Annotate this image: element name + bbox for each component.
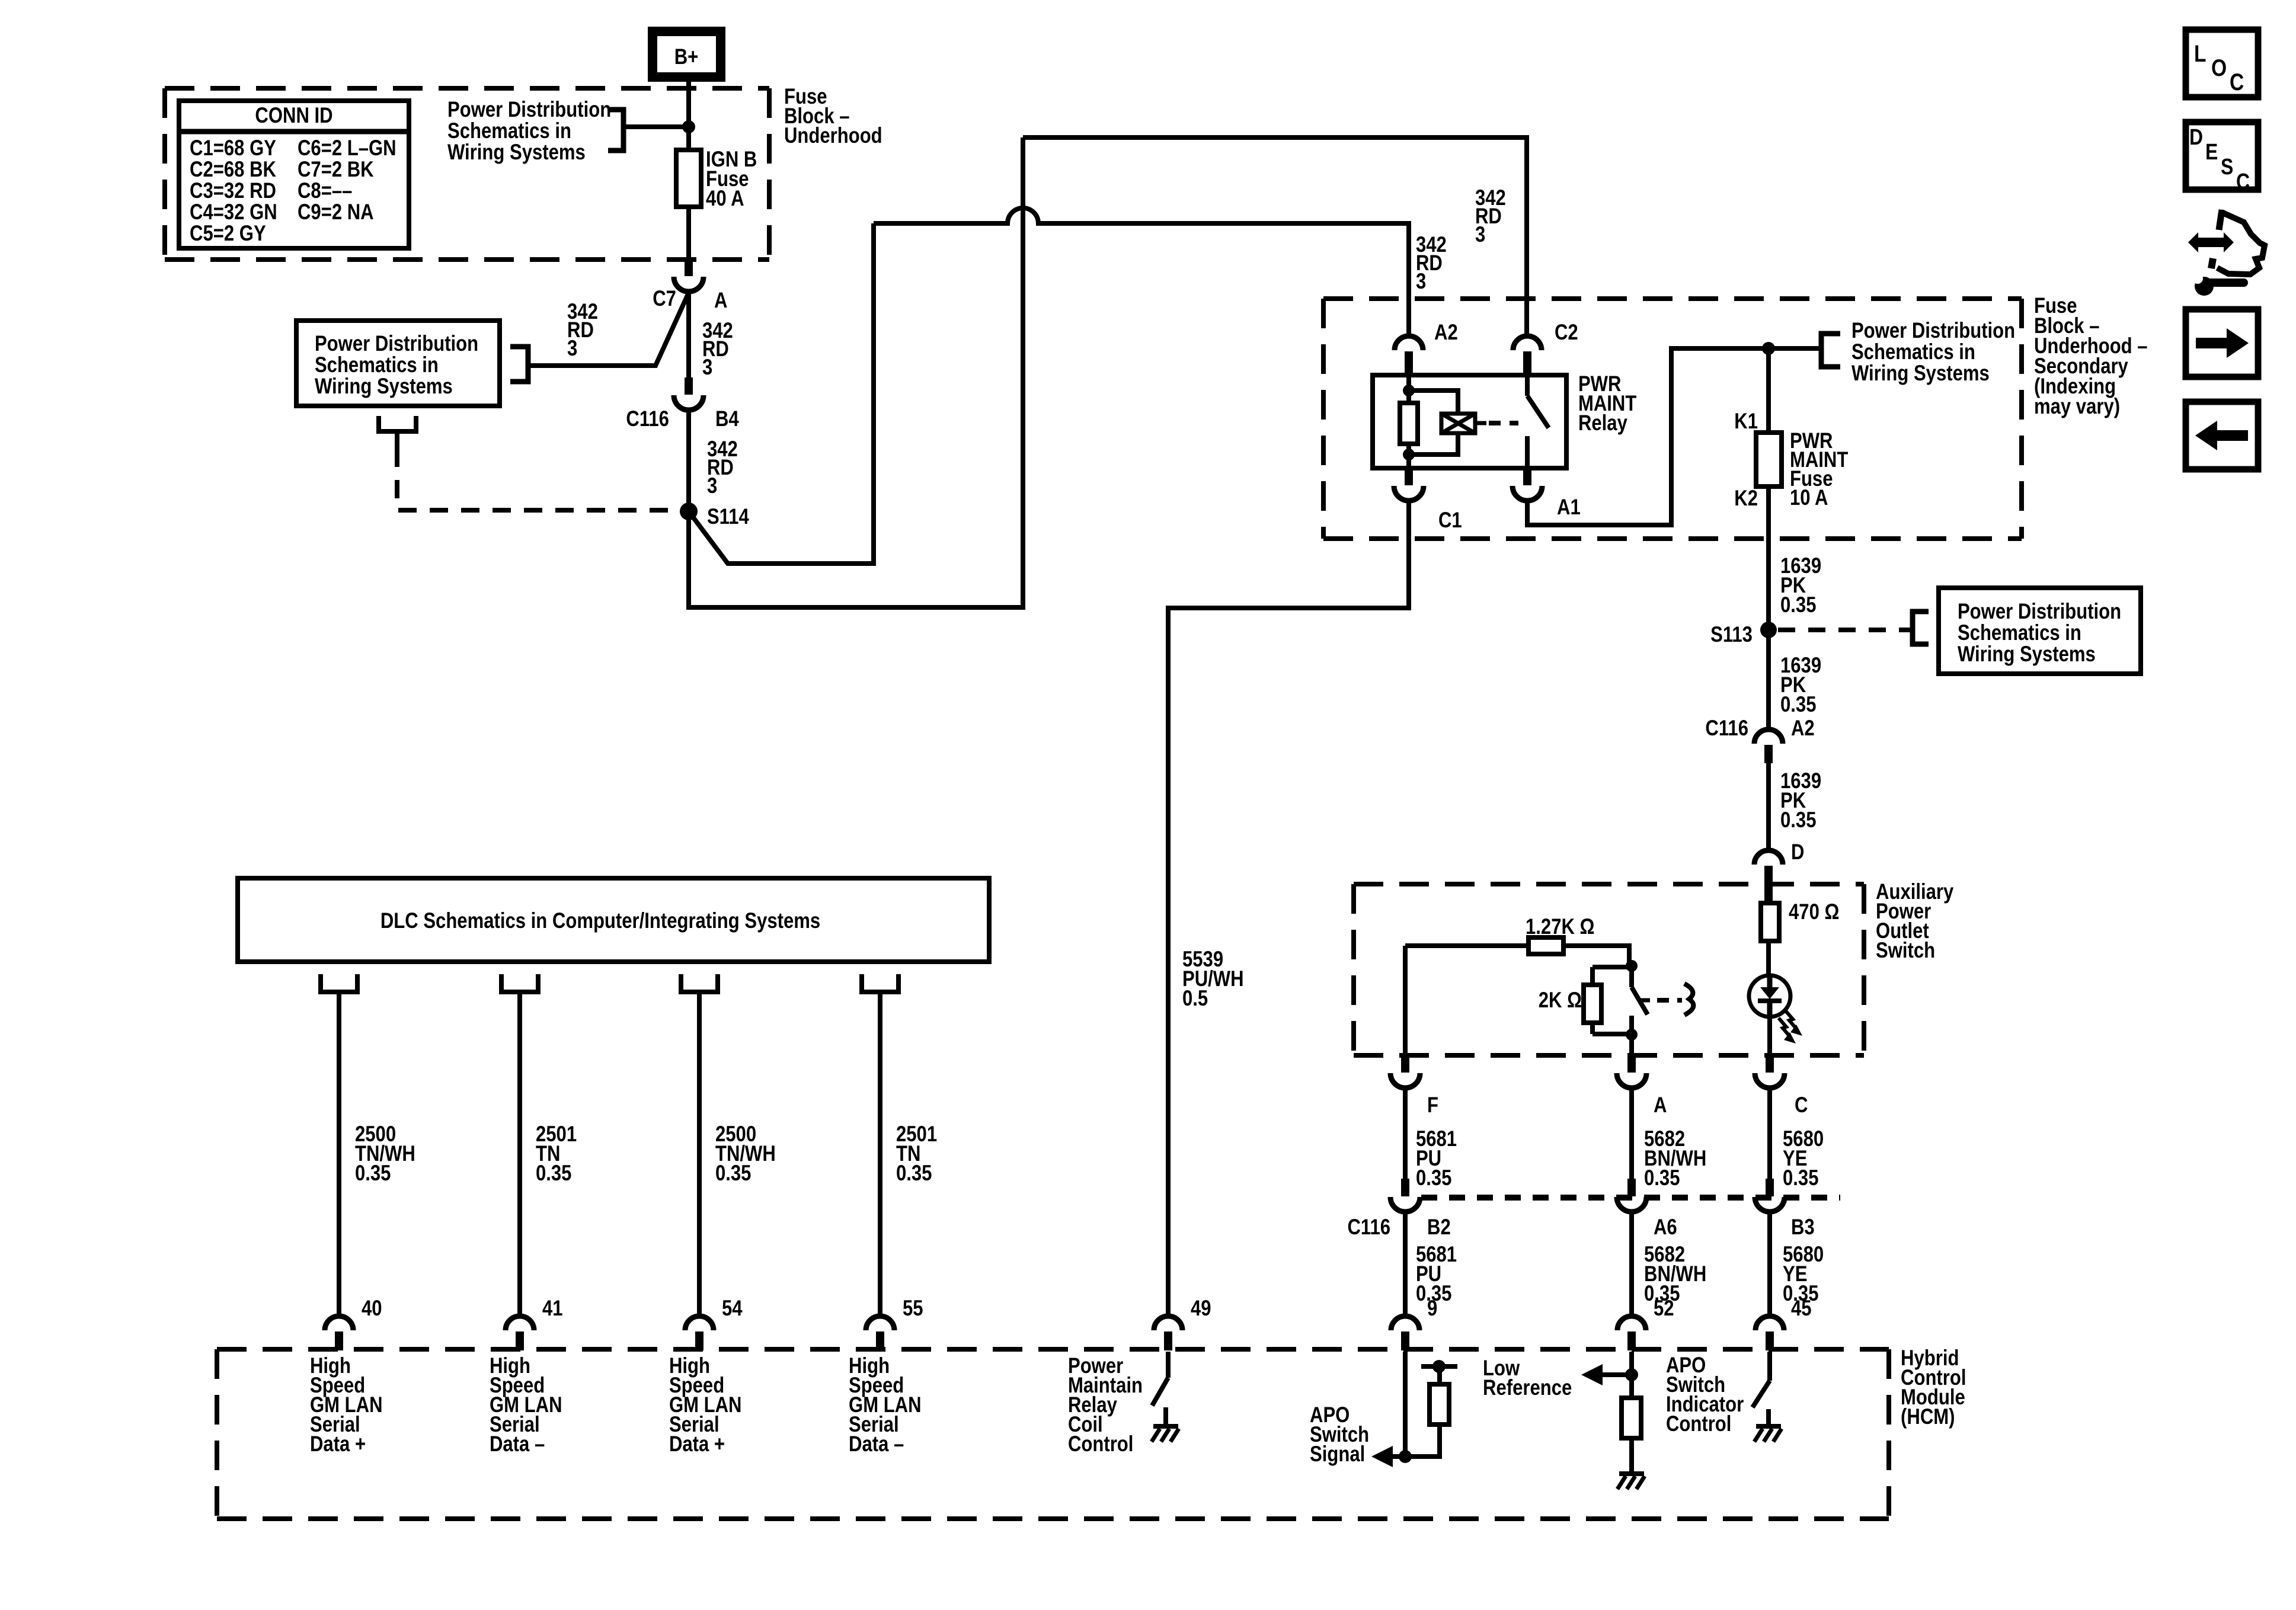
- connector pin 41 into HCM: [506, 1316, 534, 1330]
- pin 9 wire to junction: [1403, 1352, 1408, 1457]
- connector bracket below DLC box #4: [862, 974, 898, 992]
- svg-text:Schematics in: Schematics in: [315, 353, 439, 377]
- wire bracket to B+ feed: [623, 124, 689, 129]
- svg-text:A2: A2: [1791, 716, 1815, 741]
- svg-text:C3=32 RD: C3=32 RD: [190, 179, 276, 203]
- svg-text:C2: C2: [1555, 321, 1578, 345]
- svg-text:3: 3: [1475, 223, 1485, 247]
- connector pin 49 into HCM: [1154, 1316, 1182, 1330]
- switch upper contact dot: [1626, 960, 1638, 972]
- svg-text:Switch: Switch: [1876, 939, 1935, 963]
- icon vehicle outline with arrow and wrench: [2188, 232, 2234, 252]
- svg-text:Power Distribution: Power Distribution: [447, 98, 611, 122]
- svg-text:40 A: 40 A: [706, 187, 744, 211]
- wire A1 to K1 feed: [1527, 348, 1821, 525]
- dashed wire S113 to bracket: [1778, 628, 1913, 632]
- svg-text:0.35: 0.35: [1780, 593, 1816, 617]
- pin 9 pull-up resistor: [1405, 1425, 1440, 1457]
- wire DLC to HCM pin 54: [697, 992, 702, 1316]
- wire C1 to pin 49 riser: [1168, 501, 1409, 1316]
- connector C116 dotted line: [1421, 1195, 1840, 1201]
- svg-text:9: 9: [1427, 1297, 1437, 1321]
- connector A2 into relay: [1395, 336, 1423, 350]
- svg-text:Wiring Systems: Wiring Systems: [315, 375, 453, 399]
- svg-text:Underhood: Underhood: [784, 124, 882, 148]
- junction dot pin 9: [1399, 1450, 1412, 1463]
- component box DLC Schematics in Computer/Integrating Systems: [238, 878, 989, 962]
- connector C out of aux box: [1766, 1055, 1774, 1073]
- svg-text:CONN ID: CONN ID: [255, 104, 332, 128]
- svg-text:L: L: [2194, 40, 2207, 66]
- svg-text:45: 45: [1791, 1297, 1812, 1321]
- connector A1 out of relay: [1523, 468, 1531, 485]
- svg-text:Schematics in: Schematics in: [1851, 340, 1975, 364]
- svg-text:C116: C116: [1347, 1215, 1390, 1240]
- svg-text:C116: C116: [1705, 716, 1748, 741]
- wire A6 to pin 52: [1629, 1212, 1634, 1316]
- svg-text:Control: Control: [1666, 1412, 1731, 1436]
- wire 1.27K branch to pin F: [1403, 946, 1408, 1055]
- connector D into aux switch: [1754, 850, 1783, 865]
- wire top horizontal to C2: [1023, 137, 1527, 336]
- svg-text:B4: B4: [715, 407, 739, 431]
- APO switch signal arrow: [1371, 1446, 1393, 1467]
- svg-text:A: A: [1654, 1093, 1667, 1118]
- wire DLC to HCM pin 40: [337, 992, 341, 1316]
- svg-text:470 Ω: 470 Ω: [1789, 900, 1839, 924]
- fuse block - underhood secondary dashed box: [1323, 296, 2022, 301]
- power symbol B+ (battery feed): [653, 31, 721, 77]
- svg-text:Wiring Systems: Wiring Systems: [1851, 361, 1990, 386]
- wire A2 to D: [1766, 763, 1771, 850]
- low reference arrow: [1581, 1364, 1603, 1385]
- svg-text:B2: B2: [1427, 1215, 1451, 1240]
- hybrid control module dashed box: [217, 1347, 1889, 1352]
- switch blade (momentary): [1629, 966, 1634, 987]
- splice S114: [680, 502, 698, 520]
- resistor 470 ohm: [1766, 901, 1771, 903]
- svg-text:Power Distribution: Power Distribution: [315, 332, 478, 356]
- wire F to C116 B2: [1403, 1088, 1408, 1179]
- connector C116 pin B3: [1766, 1179, 1774, 1196]
- wire horizontal to A2 with hop: [874, 208, 1409, 336]
- junction dot K1 feed: [1762, 342, 1775, 355]
- svg-text:41: 41: [542, 1297, 563, 1321]
- pin 49 switch to ground: [1166, 1352, 1171, 1378]
- auxiliary power outlet switch dashed box: [1354, 882, 1864, 886]
- connector C116 pin A2 inline: [1754, 729, 1783, 744]
- svg-text:1.27K Ω: 1.27K Ω: [1526, 915, 1594, 939]
- LED indicator: [1749, 975, 1790, 1017]
- connector pin 55 into HCM: [866, 1316, 894, 1330]
- icon box arrow right: [2186, 309, 2258, 377]
- fuse block - underhood dashed box: [165, 86, 769, 91]
- svg-text:S114: S114: [707, 505, 749, 529]
- wire S114 to relay feed riser: [689, 223, 874, 564]
- svg-text:0.35: 0.35: [355, 1161, 391, 1186]
- svg-text:Control: Control: [1068, 1432, 1133, 1457]
- svg-text:A6: A6: [1654, 1215, 1677, 1240]
- wire B3 to pin 45: [1767, 1212, 1772, 1316]
- svg-text:2K Ω: 2K Ω: [1539, 988, 1582, 1013]
- svg-text:Signal: Signal: [1310, 1442, 1365, 1467]
- momentary hook symbol: [1684, 984, 1693, 1015]
- svg-text:S113: S113: [1710, 623, 1753, 647]
- svg-text:3: 3: [702, 356, 712, 380]
- connector table CONN ID box: [179, 101, 409, 248]
- svg-text:C9=2 NA: C9=2 NA: [298, 200, 374, 225]
- svg-text:C: C: [1795, 1093, 1808, 1118]
- connector bracket below left box: [379, 416, 416, 431]
- connector C7 pin A: [685, 259, 693, 276]
- svg-text:C: C: [2230, 69, 2244, 95]
- connector C116 pin A6: [1627, 1179, 1636, 1196]
- fuse IGN B 40 A: [686, 150, 691, 207]
- svg-text:C1=68 GY: C1=68 GY: [190, 136, 276, 161]
- svg-text:K2: K2: [1734, 486, 1758, 511]
- svg-text:Reference: Reference: [1483, 1376, 1572, 1400]
- relay PWR MAINT Relay box: [1373, 375, 1566, 468]
- pin 45 switch to ground: [1767, 1352, 1772, 1381]
- connector pin 45 into HCM: [1755, 1316, 1784, 1330]
- off-page bracket to power distribution (top): [608, 110, 623, 151]
- svg-text:52: 52: [1654, 1297, 1674, 1321]
- wire B2 to pin 9: [1403, 1212, 1408, 1316]
- wire DLC to HCM pin 41: [517, 992, 522, 1316]
- svg-text:C: C: [2236, 169, 2250, 194]
- svg-text:C2=68 BK: C2=68 BK: [190, 158, 276, 182]
- connector C1 out of relay: [1405, 468, 1413, 485]
- junction dot pin 52: [1625, 1368, 1638, 1381]
- wire C116 B4 to S114: [686, 409, 691, 511]
- resistor 2K ohm parallel: [1590, 967, 1595, 985]
- switch linkage dashed: [1657, 998, 1682, 1003]
- pin 9 internal rail bar: [1421, 1364, 1457, 1369]
- connector F out of aux box: [1401, 1055, 1409, 1073]
- svg-text:E: E: [2205, 139, 2218, 164]
- svg-text:55: 55: [903, 1297, 923, 1321]
- switch lower contact dot: [1629, 1016, 1634, 1035]
- wire B+ to IGN B fuse: [686, 77, 691, 150]
- connector bracket below DLC box #3: [681, 974, 718, 992]
- connector C116 pin B4: [685, 377, 693, 395]
- ground (low reference): [1619, 1471, 1644, 1476]
- wire S114 down and to C2 riser: [689, 137, 1023, 607]
- svg-text:0.35: 0.35: [715, 1161, 751, 1186]
- svg-text:Wiring Systems: Wiring Systems: [447, 140, 586, 165]
- svg-text:C4=32 GN: C4=32 GN: [190, 200, 277, 225]
- svg-text:Schematics in: Schematics in: [447, 119, 571, 143]
- svg-text:Power Distribution: Power Distribution: [1851, 319, 2015, 343]
- svg-text:Data +: Data +: [310, 1432, 366, 1457]
- svg-text:0.35: 0.35: [1783, 1166, 1818, 1190]
- svg-text:Data –: Data –: [849, 1432, 904, 1457]
- off-page bracket power distribution (right): [1821, 334, 1840, 367]
- ground (APO indicator): [1756, 1424, 1781, 1429]
- pin 52 wire: [1629, 1352, 1634, 1398]
- ground (relay coil control): [1153, 1424, 1178, 1429]
- connector C116 pin B2: [1401, 1179, 1409, 1196]
- svg-text:C1: C1: [1438, 508, 1462, 533]
- relay coil resistor branch: [1406, 375, 1411, 403]
- off-page bracket S113: [1913, 612, 1929, 644]
- svg-text:O: O: [2211, 55, 2227, 81]
- svg-text:C6=2 L–GN: C6=2 L–GN: [298, 136, 396, 161]
- wire fuse to C7: [686, 207, 691, 259]
- svg-text:3: 3: [567, 337, 577, 361]
- connector pin 54 into HCM: [685, 1316, 714, 1330]
- svg-text:A2: A2: [1434, 321, 1458, 345]
- svg-text:Schematics in: Schematics in: [1958, 621, 2081, 645]
- icon box DESC: [2186, 122, 2258, 190]
- svg-text:D: D: [2189, 124, 2203, 149]
- wire C to C116 B3: [1767, 1088, 1772, 1179]
- connector pin 40 into HCM: [325, 1316, 353, 1330]
- svg-text:F: F: [1427, 1093, 1438, 1118]
- svg-text:C8=––: C8=––: [298, 179, 352, 203]
- connector bracket below DLC box #2: [501, 974, 538, 992]
- connector C2 into relay: [1513, 336, 1542, 350]
- svg-text:49: 49: [1191, 1297, 1211, 1321]
- svg-text:0.5: 0.5: [1182, 987, 1208, 1011]
- icon box arrow left: [2186, 402, 2258, 469]
- svg-text:K1: K1: [1734, 409, 1758, 434]
- svg-text:C7: C7: [653, 287, 676, 311]
- svg-text:C7=2 BK: C7=2 BK: [298, 158, 374, 182]
- svg-text:0.35: 0.35: [536, 1161, 571, 1186]
- fuse PWR MAINT 10 A: [1766, 348, 1771, 433]
- svg-text:B+: B+: [674, 45, 699, 69]
- icon box LOC: [2186, 30, 2258, 97]
- relay linkage dashed: [1489, 421, 1518, 425]
- wire A to C116 A6: [1629, 1088, 1634, 1179]
- svg-text:(HCM): (HCM): [1901, 1405, 1955, 1429]
- svg-text:3: 3: [1416, 270, 1426, 294]
- svg-text:S: S: [2221, 154, 2233, 179]
- svg-text:Wiring Systems: Wiring Systems: [1958, 642, 2096, 667]
- svg-text:Data –: Data –: [490, 1432, 545, 1457]
- LED light arrows: [1785, 1010, 1796, 1028]
- connector A out of aux box: [1627, 1055, 1636, 1073]
- svg-text:0.35: 0.35: [1644, 1166, 1680, 1190]
- junction dot on B+ feed: [682, 120, 695, 133]
- svg-text:0.35: 0.35: [1780, 693, 1816, 717]
- resistor 1.27K ohm and wire: [1405, 943, 1528, 948]
- boxed label Power Distribution Schematics in Wiring Systems (S113): [1939, 588, 2141, 674]
- wire DLC to HCM pin 55: [878, 992, 882, 1316]
- dashed wire from left box to S114: [397, 449, 680, 510]
- component box Power Distribution Schematics in Wiring Systems (left): [296, 321, 500, 406]
- svg-text:A: A: [714, 289, 727, 313]
- svg-text:may vary): may vary): [2034, 395, 2120, 419]
- connector pin 52 into HCM: [1617, 1316, 1646, 1330]
- svg-text:D: D: [1791, 840, 1804, 865]
- svg-text:Power Distribution: Power Distribution: [1958, 600, 2121, 624]
- svg-text:10 A: 10 A: [1790, 486, 1828, 510]
- svg-text:Data +: Data +: [669, 1432, 725, 1457]
- wire switch to pin A: [1629, 1035, 1634, 1055]
- relay coil junction dots: [1403, 385, 1415, 396]
- connector bracket below DLC box #1: [321, 974, 357, 992]
- svg-text:3: 3: [707, 474, 717, 498]
- svg-text:0.35: 0.35: [1780, 808, 1816, 833]
- wire C7 to C116: [686, 291, 691, 377]
- svg-text:40: 40: [362, 1297, 382, 1321]
- off-page bracket right of left box: [510, 347, 528, 382]
- svg-text:B3: B3: [1791, 1215, 1815, 1240]
- svg-text:Relay: Relay: [1578, 411, 1627, 436]
- pin 52 resistor to ground: [1622, 1398, 1641, 1438]
- svg-text:0.35: 0.35: [896, 1161, 932, 1186]
- splice S113: [1760, 622, 1777, 638]
- wire LED to pin C: [1767, 1017, 1772, 1055]
- svg-text:54: 54: [722, 1297, 743, 1321]
- svg-text:C116: C116: [626, 407, 669, 431]
- diagonal wire C7 to power distribution box: [528, 293, 689, 366]
- relay switch contact: [1525, 375, 1530, 396]
- svg-text:DLC Schematics in Computer/Int: DLC Schematics in Computer/Integrating S…: [380, 909, 820, 933]
- relay coil loop and coil: [1409, 391, 1458, 414]
- connector pin 9 into HCM: [1391, 1316, 1419, 1330]
- svg-text:A1: A1: [1557, 495, 1581, 520]
- svg-text:C5=2 GY: C5=2 GY: [190, 222, 266, 246]
- svg-text:0.35: 0.35: [1416, 1166, 1451, 1190]
